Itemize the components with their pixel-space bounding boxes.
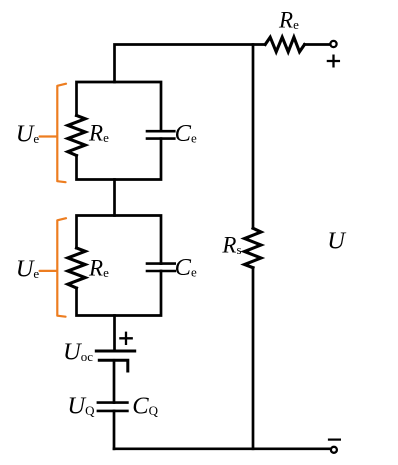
svg-text:Rs: Rs xyxy=(221,233,241,258)
plus sign at positive terminal xyxy=(328,56,339,67)
svg-text:Re: Re xyxy=(88,121,109,146)
wire from R_s down to bottom rail xyxy=(252,268,255,449)
voltage source U_oc bottom plate with hook xyxy=(99,360,128,371)
minus sign at negative terminal xyxy=(329,439,340,441)
svg-text:Re: Re xyxy=(278,8,299,33)
RC box 1 outline wires xyxy=(77,82,162,180)
resistor R_s xyxy=(245,228,262,267)
svg-text:CQ: CQ xyxy=(132,392,158,419)
capacitor C_e (box 1, right branch) xyxy=(147,131,174,138)
wire between box 1 and box 2 xyxy=(113,180,116,216)
wire top-left from node A down to RC box 1 xyxy=(115,45,266,83)
terminal + (open circle) xyxy=(330,41,336,47)
svg-text:Re: Re xyxy=(88,256,109,281)
wire from C_Q to bottom rail xyxy=(113,411,116,449)
orange bracket for U_e (box 1) xyxy=(40,84,66,183)
orange bracket for U_e (box 2) xyxy=(40,218,66,317)
terminal - (open circle) xyxy=(331,447,337,453)
svg-text:U: U xyxy=(327,228,347,255)
bottom rail wire xyxy=(114,447,331,450)
wire from node A down to R_s xyxy=(252,45,255,229)
svg-text:Ue: Ue xyxy=(16,256,40,283)
svg-text:Ce: Ce xyxy=(175,120,197,147)
capacitor C_e (box 2, right branch) xyxy=(147,264,175,271)
svg-text:Ue: Ue xyxy=(16,121,40,148)
voltage source U_oc top plate xyxy=(96,350,134,353)
wire from U_oc to C_Q xyxy=(113,360,116,402)
svg-text:UQ: UQ xyxy=(67,392,95,419)
plus sign of U_oc source xyxy=(120,333,131,344)
wire from R_e to positive terminal xyxy=(305,43,331,46)
RC box 2 outline wires xyxy=(77,216,162,316)
svg-text:Ce: Ce xyxy=(175,254,197,281)
svg-text:Uoc: Uoc xyxy=(63,339,93,366)
capacitor C_Q plates xyxy=(98,403,128,411)
wire from box 2 down to U_oc source xyxy=(113,316,116,352)
resistor R_e (box 2, left branch) xyxy=(68,248,85,288)
resistor R_e (series, top) xyxy=(265,37,304,52)
resistor R_e (box 1, left branch) xyxy=(68,116,85,156)
